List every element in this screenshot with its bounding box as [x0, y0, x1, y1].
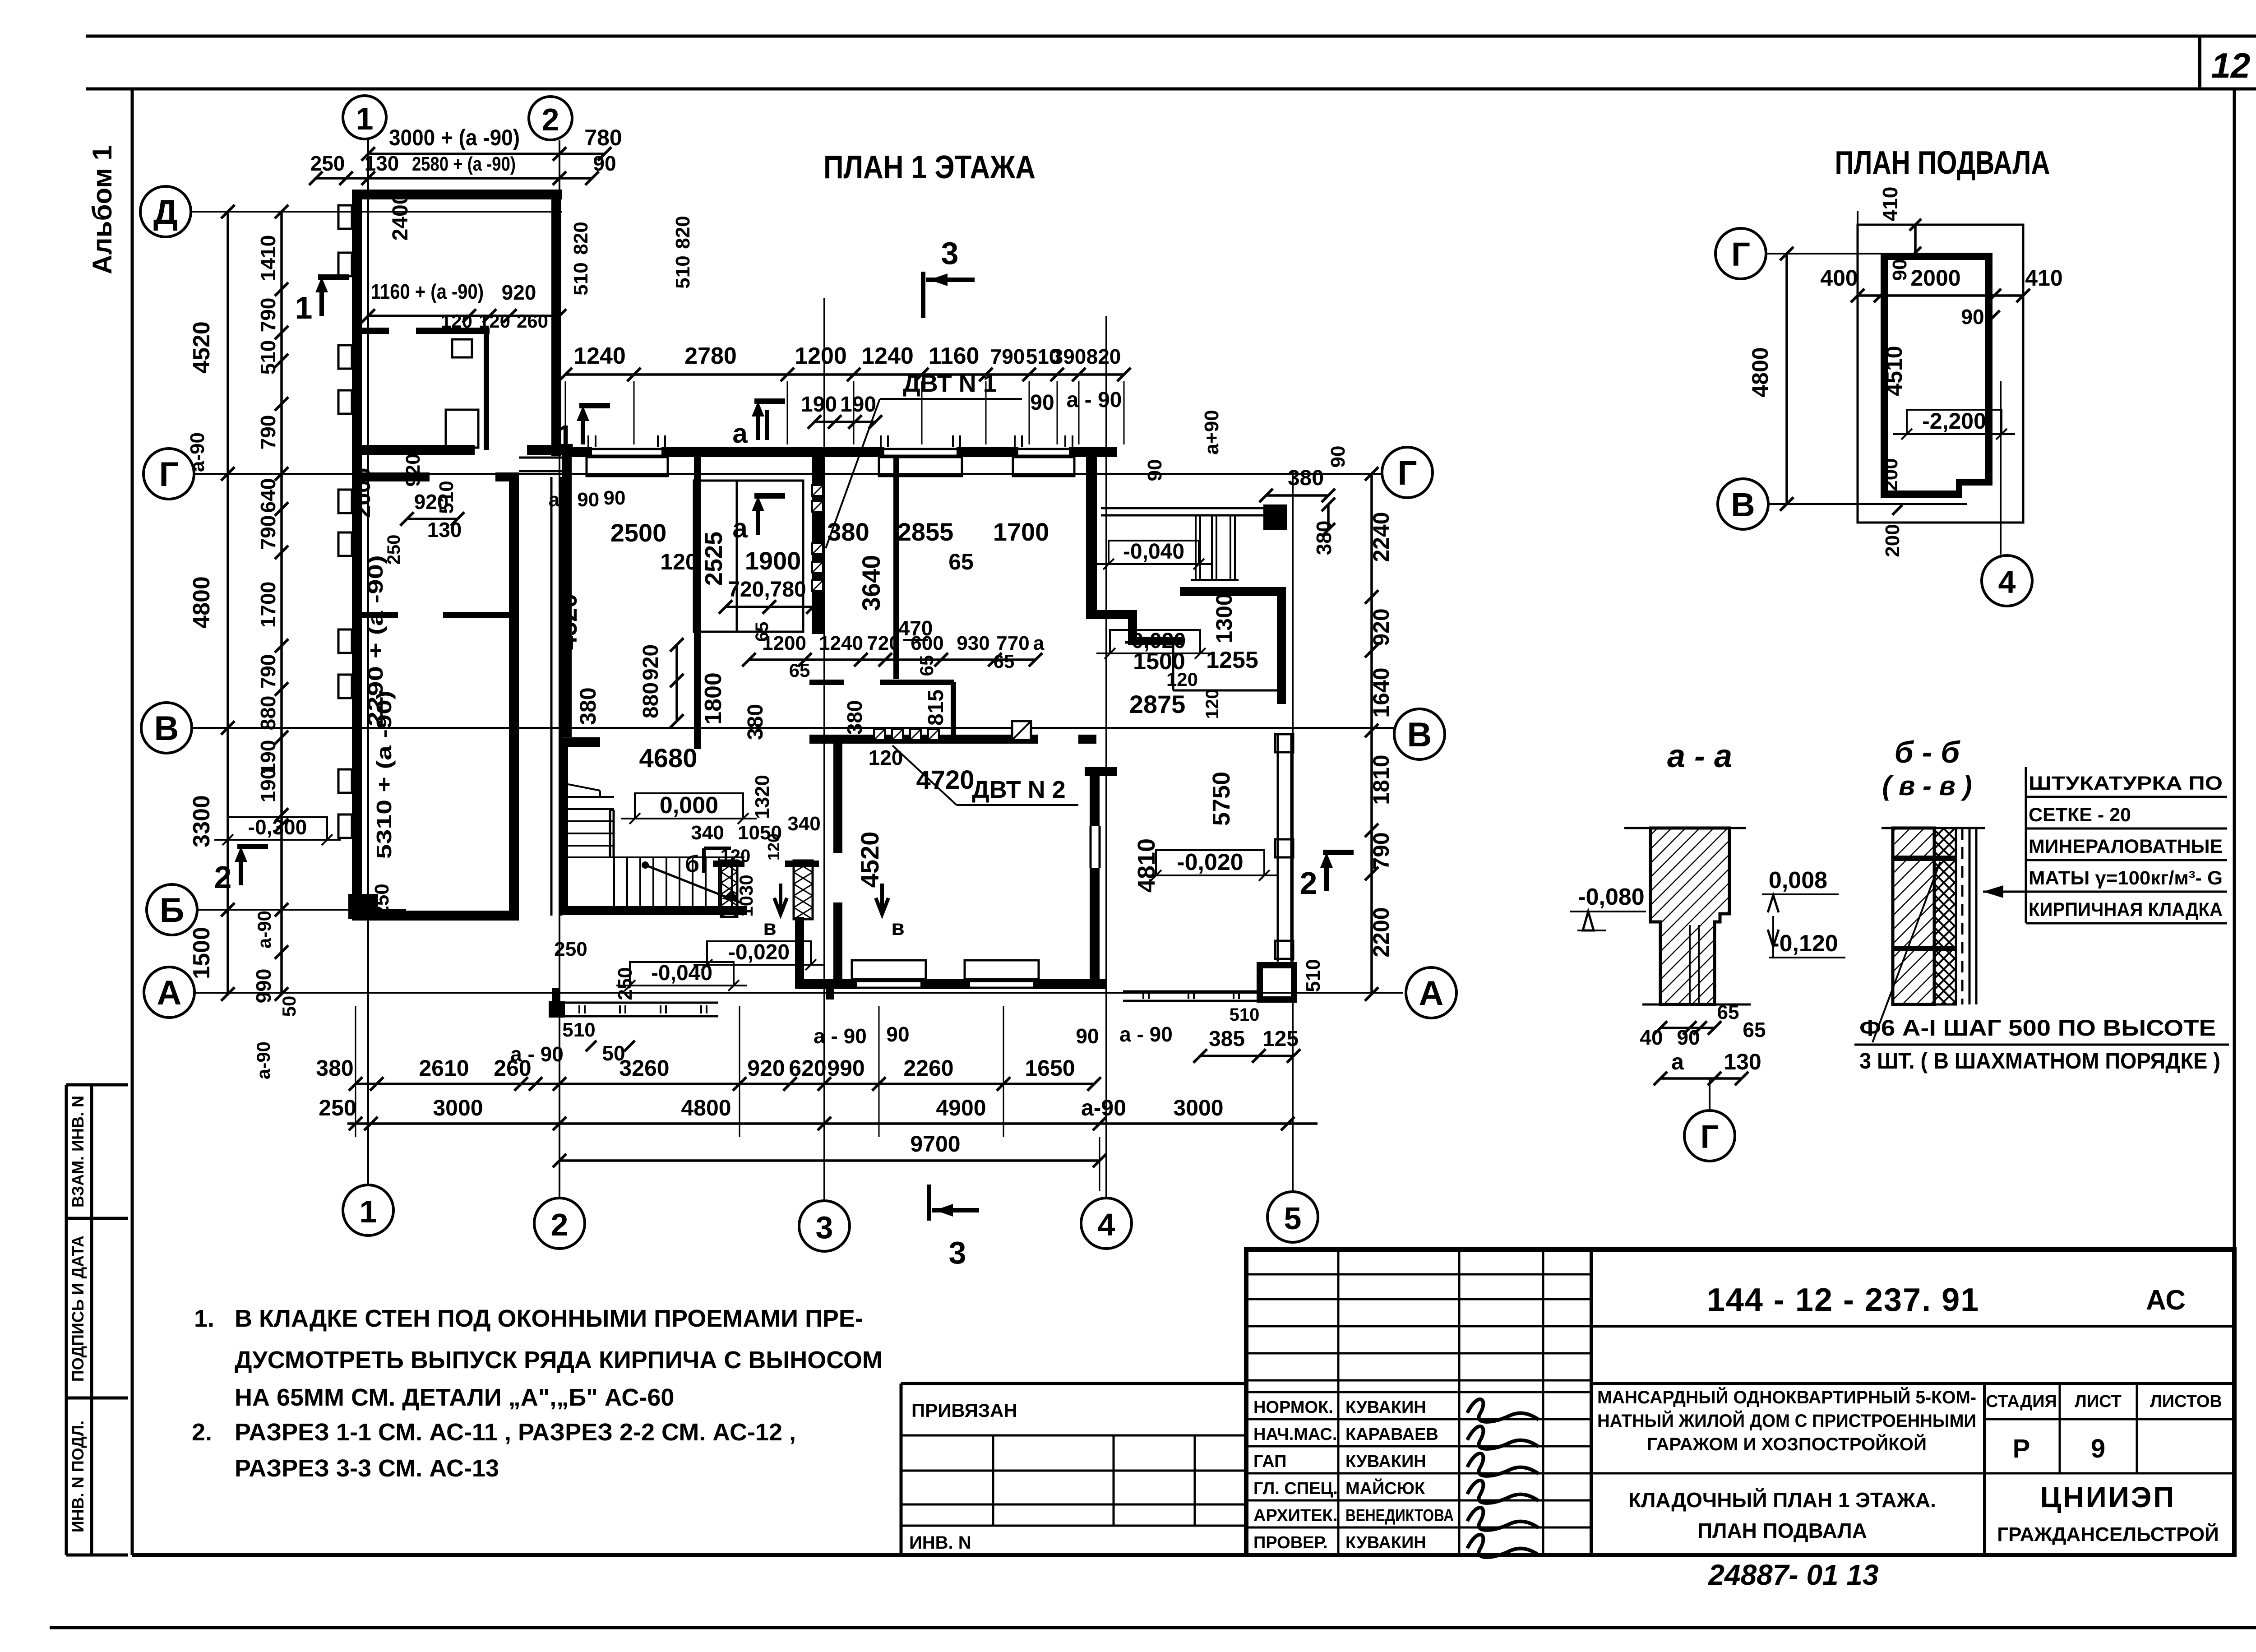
- svg-text:790: 790: [256, 298, 280, 333]
- svg-text:880: 880: [256, 696, 280, 731]
- section b-b rebar leader: [1872, 862, 1940, 1042]
- svg-text:2855: 2855: [897, 518, 954, 546]
- svg-text:1200: 1200: [795, 343, 847, 369]
- svg-text:В: В: [1731, 486, 1755, 523]
- svg-text:130: 130: [427, 518, 462, 541]
- title block personnel row lines: [1246, 1391, 1591, 1393]
- svg-text:ИНВ. N ПОДЛ.: ИНВ. N ПОДЛ.: [69, 1421, 87, 1532]
- svg-text:ДУСМОТРЕТЬ ВЫПУСК РЯДА КИРП: ДУСМОТРЕТЬ ВЫПУСК РЯДА КИРПИЧА С ВЫНОСОМ: [235, 1347, 883, 1374]
- svg-text:1240: 1240: [861, 343, 914, 369]
- svg-text:ПРИВЯЗАН: ПРИВЯЗАН: [911, 1400, 1017, 1421]
- svg-text:790: 790: [256, 515, 280, 550]
- svg-text:190: 190: [801, 393, 837, 416]
- section b-b brick layer hatched: [1893, 828, 1934, 1004]
- sheet outer bottom edge line: [50, 1626, 2256, 1629]
- axis circle B left: [147, 884, 197, 935]
- axis line D: [191, 211, 562, 213]
- svg-text:200: 200: [1880, 458, 1902, 491]
- svg-text:340: 340: [787, 813, 820, 835]
- section b-b insulation layer crosshatched: [1934, 828, 1956, 1004]
- axis circle 2 top: [529, 97, 572, 140]
- svg-text:90: 90: [1327, 446, 1349, 468]
- svg-text:120: 120: [660, 549, 698, 574]
- basement leader to axis 4: [2000, 381, 2002, 555]
- closet block outline: [694, 481, 803, 632]
- svg-text:3: 3: [816, 1210, 833, 1245]
- left wing window jamb marks on left wall: [338, 205, 352, 229]
- svg-text:ВЗАМ. ИНВ. N: ВЗАМ. ИНВ. N: [69, 1096, 87, 1208]
- svg-text:510: 510: [570, 262, 592, 295]
- svg-text:МИНЕРАЛОВАТНЫЕ: МИНЕРАЛОВАТНЫЕ: [2029, 836, 2223, 857]
- svg-text:65: 65: [948, 549, 974, 574]
- entrance niche walls: [1086, 610, 1137, 619]
- svg-text:В: В: [154, 709, 179, 748]
- svg-text:510: 510: [1230, 1005, 1260, 1025]
- section mark 2 left: [239, 854, 243, 885]
- svg-text:a: a: [732, 513, 748, 543]
- garage interior partition vertical: [484, 331, 489, 450]
- svg-text:90: 90: [593, 152, 616, 175]
- svg-text:СТАДИЯ: СТАДИЯ: [1986, 1392, 2057, 1411]
- svg-text:a+90: a+90: [1201, 410, 1223, 454]
- svg-text:120: 120: [764, 833, 783, 861]
- dimension chain wing 1160: [368, 315, 559, 317]
- vent square isolated: [1012, 721, 1031, 740]
- entrance small room lines: [1172, 645, 1174, 690]
- stair upper flight treads: [568, 796, 614, 798]
- level box 0.000: [635, 793, 743, 819]
- stair railing: [609, 810, 611, 857]
- living room west wall: [833, 744, 842, 853]
- svg-text:120: 120: [479, 310, 510, 332]
- axis line G: [194, 473, 1382, 475]
- svg-text:3000 + (a -90): 3000 + (a -90): [389, 125, 520, 150]
- svg-text:400: 400: [1820, 265, 1858, 291]
- svg-text:б: б: [685, 851, 699, 877]
- svg-text:65: 65: [752, 622, 772, 642]
- left wing garage bottom wall: [352, 445, 475, 455]
- svg-text:5: 5: [1284, 1201, 1302, 1236]
- svg-text:4800: 4800: [1747, 347, 1773, 397]
- svg-text:1700: 1700: [993, 518, 1049, 546]
- svg-text:Д: Д: [153, 193, 178, 231]
- svg-text:2875: 2875: [1129, 690, 1186, 718]
- section a-a hatched pier: [1650, 828, 1729, 1004]
- axis circle A left: [144, 967, 194, 1018]
- window jamb tabs above top wall: [587, 435, 589, 447]
- basement left dim 4800: [1785, 254, 1788, 504]
- left main dimension chain: [227, 212, 229, 994]
- axis 2 vertical line: [559, 140, 560, 1198]
- title block outer border: [1246, 1249, 2234, 1555]
- svg-text:720: 720: [867, 632, 900, 654]
- svg-text:ПЛАН 1 ЭТАЖА: ПЛАН 1 ЭТАЖА: [823, 149, 1036, 185]
- section b-b plaster lines: [1969, 828, 1971, 1004]
- svg-text:1640: 1640: [1368, 667, 1394, 717]
- svg-text:Г: Г: [1397, 454, 1417, 492]
- svg-text:90: 90: [1961, 305, 1984, 329]
- bottom wall window 1: [857, 980, 920, 982]
- section b-b mesh dashed line: [1961, 828, 1964, 1004]
- stair landing line: [568, 856, 744, 858]
- sheet outer top edge line: [86, 35, 2256, 38]
- vent squares column: [812, 485, 823, 496]
- vestibule stub: [826, 988, 834, 1000]
- garage fixture small: [452, 339, 472, 357]
- svg-text:120: 120: [1202, 689, 1222, 719]
- bath inner partition: [951, 682, 956, 739]
- svg-text:3260: 3260: [619, 1055, 669, 1081]
- svg-text:ПРОВЕР.: ПРОВЕР.: [1253, 1533, 1328, 1552]
- level box -0.020 east: [1110, 630, 1200, 653]
- section a-a axis leader: [1709, 1078, 1710, 1110]
- svg-text:880: 880: [639, 682, 663, 718]
- left wing lower block partition: [362, 612, 398, 618]
- svg-text:-2,200: -2,200: [1922, 408, 1986, 434]
- svg-text:380: 380: [827, 518, 869, 546]
- svg-text:2000: 2000: [1910, 265, 1960, 291]
- svg-text:790: 790: [256, 654, 280, 689]
- svg-text:1240: 1240: [573, 343, 626, 369]
- svg-text:-0,080: -0,080: [1578, 884, 1644, 910]
- main house left wall: [562, 457, 572, 737]
- bottom axis chain: [347, 1122, 1318, 1125]
- svg-text:4900: 4900: [936, 1095, 986, 1120]
- svg-text:790: 790: [256, 415, 280, 450]
- top wall window 1: [592, 448, 661, 450]
- svg-text:МАНСАРДНЫЙ ОДНОКВАРТИРНЫЙ 5-: МАНСАРДНЫЙ ОДНОКВАРТИРНЫЙ 5-КОМ-: [1597, 1387, 1976, 1407]
- svg-text:1030: 1030: [735, 875, 757, 916]
- left wing lower block top wall: [352, 472, 430, 481]
- svg-text:3300: 3300: [189, 795, 215, 847]
- svg-text:a-90: a-90: [1081, 1095, 1126, 1120]
- svg-text:СЕТКЕ - 20: СЕТКЕ - 20: [2029, 804, 2131, 826]
- section mark 2 right: [1324, 860, 1329, 891]
- svg-text:АС: АС: [2146, 1285, 2186, 1316]
- svg-text:ПЛАН ПОДВАЛА: ПЛАН ПОДВАЛА: [1835, 145, 2050, 181]
- signatures: [1467, 1399, 1539, 1422]
- level box -0.020 entry: [707, 941, 811, 965]
- svg-text:4800: 4800: [189, 576, 215, 629]
- svg-text:90: 90: [1677, 1026, 1700, 1049]
- svg-text:МАЙСЮК: МАЙСЮК: [1345, 1478, 1425, 1498]
- svg-text:КУВАКИН: КУВАКИН: [1345, 1452, 1426, 1471]
- svg-text:1700: 1700: [256, 582, 280, 628]
- section b-b tie bars: [1893, 856, 1956, 861]
- svg-text:2290 + (a -90): 2290 + (a -90): [364, 555, 387, 727]
- section mark 3 bottom: [927, 1185, 931, 1221]
- svg-text:65: 65: [1743, 1018, 1766, 1041]
- bottom overall chain 9700: [559, 1159, 1100, 1162]
- entrance east wall: [1277, 592, 1286, 704]
- svg-text:1: 1: [360, 1194, 377, 1229]
- left wing top wall: [352, 190, 562, 199]
- svg-text:790: 790: [1368, 832, 1394, 870]
- svg-text:( в - в ): ( в - в ): [1882, 771, 1972, 801]
- wing corridor east lines: [550, 477, 553, 916]
- axis circle G right: [1382, 447, 1433, 498]
- svg-text:2: 2: [1300, 865, 1318, 901]
- svg-text:380: 380: [744, 704, 767, 740]
- partition living-closet: [694, 457, 701, 749]
- vestibule bottom wall: [795, 980, 837, 989]
- svg-text:1900: 1900: [745, 546, 801, 575]
- svg-text:ПОДПИСЬ И ДАТА: ПОДПИСЬ И ДАТА: [69, 1236, 87, 1382]
- right dimension chain: [1370, 474, 1373, 994]
- svg-text:24887- 01 13: 24887- 01 13: [1708, 1559, 1878, 1591]
- vent squares row: [874, 729, 885, 740]
- basement level mark -2.200: [1907, 410, 2002, 434]
- axis circle 4 bottom: [1081, 1198, 1132, 1249]
- svg-text:ДВТ N 1: ДВТ N 1: [903, 370, 996, 397]
- svg-text:ГАРАЖОМ И ХОЗПОСТРОЙКОЙ: ГАРАЖОМ И ХОЗПОСТРОЙКОЙ: [1647, 1434, 1927, 1454]
- top wall window 3: [1018, 448, 1069, 450]
- svg-text:130: 130: [365, 152, 399, 175]
- svg-text:90: 90: [1030, 391, 1054, 415]
- svg-text:410: 410: [1878, 187, 1902, 222]
- svg-text:А: А: [1419, 974, 1444, 1013]
- stair hall left wall: [559, 747, 568, 911]
- basement axis V line: [1768, 503, 1967, 505]
- svg-text:НОРМОК.: НОРМОК.: [1253, 1398, 1333, 1417]
- svg-text:120: 120: [1166, 669, 1198, 690]
- svg-text:820: 820: [570, 222, 592, 255]
- svg-text:3000: 3000: [433, 1095, 483, 1120]
- svg-text:a - 90: a - 90: [549, 489, 600, 511]
- svg-text:90: 90: [1076, 1024, 1099, 1048]
- title block right section lines: [1591, 1382, 2234, 1385]
- svg-text:3: 3: [949, 1235, 966, 1270]
- svg-text:ГАП: ГАП: [1253, 1452, 1286, 1471]
- svg-text:Г: Г: [159, 455, 178, 494]
- svg-text:9700: 9700: [910, 1131, 960, 1157]
- left wing outer left wall: [352, 190, 362, 921]
- stair hall bottom wall: [559, 906, 747, 915]
- svg-text:260: 260: [517, 310, 548, 332]
- svg-text:1: 1: [556, 419, 574, 454]
- left wing lower block right wall: [509, 477, 519, 921]
- title block left small rows: [1246, 1273, 1591, 1276]
- svg-text:a: a: [1671, 1049, 1684, 1074]
- level box -0.040 east: [1109, 541, 1199, 564]
- section a-a ground line: [1624, 827, 1746, 829]
- svg-text:510: 510: [256, 340, 280, 375]
- svg-text:380: 380: [575, 687, 601, 725]
- svg-text:90: 90: [1889, 259, 1911, 281]
- vent channel wall: [812, 457, 823, 634]
- svg-text:510: 510: [1302, 959, 1324, 992]
- inner frame bottom border: [132, 1553, 2234, 1557]
- axis circle V left: [141, 703, 192, 753]
- svg-text:1160: 1160: [929, 343, 980, 369]
- basement dim line horizontal: [1858, 294, 2023, 297]
- svg-text:ДВТ N 2: ДВТ N 2: [972, 776, 1065, 803]
- basement foundation outline: [1858, 225, 2023, 523]
- axis circle 2 bottom: [534, 1198, 585, 1249]
- svg-text:5750: 5750: [1208, 772, 1235, 826]
- page number box: [2198, 36, 2201, 89]
- svg-text:ИНВ. N: ИНВ. N: [909, 1533, 971, 1553]
- basement axis circle 4: [1982, 555, 2032, 606]
- section b-b top line: [1882, 827, 1985, 829]
- vestibule west wall: [795, 917, 804, 988]
- svg-text:1410: 1410: [256, 235, 280, 281]
- sheet inner frame top line: [86, 88, 2256, 91]
- svg-text:620: 620: [789, 1055, 826, 1081]
- svg-text:МАТЫ γ=100кг/м³- G: МАТЫ γ=100кг/м³- G: [2029, 867, 2223, 889]
- svg-text:65: 65: [994, 651, 1015, 672]
- svg-text:А: А: [157, 974, 182, 1012]
- svg-text:2.: 2.: [192, 1419, 212, 1446]
- svg-text:2: 2: [214, 860, 232, 895]
- svg-text:ВЕНЕДИКТОВА: ВЕНЕДИКТОВА: [1345, 1506, 1454, 1525]
- basement axis G line: [1766, 253, 1940, 255]
- entrance column pier: [1263, 504, 1287, 530]
- svg-text:В: В: [1407, 716, 1432, 754]
- privyazan sub table: [901, 1470, 1246, 1472]
- section marks a: [756, 408, 760, 440]
- svg-text:90: 90: [1144, 459, 1166, 481]
- basement wall top: [1881, 253, 1992, 260]
- svg-text:в: в: [763, 916, 777, 940]
- svg-text:190: 190: [840, 393, 876, 416]
- svg-text:1300: 1300: [1211, 593, 1237, 643]
- axis 1 vertical line: [367, 139, 369, 1185]
- sub chain 190 190: [814, 421, 875, 423]
- svg-text:В КЛАДКЕ СТЕН ПОД ОКОННЫМИ: В КЛАДКЕ СТЕН ПОД ОКОННЫМИ ПРОЕМАМИ ПРЕ-: [235, 1305, 863, 1332]
- svg-text:50: 50: [602, 1041, 625, 1065]
- svg-text:120: 120: [721, 846, 751, 866]
- extension lines from top wall: [565, 381, 566, 444]
- axis 3 vertical line: [823, 298, 825, 1201]
- bottom wall window 2: [970, 980, 1033, 982]
- mid dimension chain under closets: [749, 658, 1036, 661]
- basement wall left: [1881, 253, 1888, 498]
- wing mid dim 920 130: [407, 518, 458, 520]
- dimension chain wing top detail: [316, 177, 592, 180]
- svg-text:ЛИСТ: ЛИСТ: [2075, 1392, 2122, 1411]
- svg-text:125: 125: [1262, 1027, 1299, 1051]
- svg-text:1810: 1810: [1368, 754, 1394, 805]
- svg-text:190: 190: [256, 768, 280, 803]
- svg-text:2525: 2525: [700, 532, 727, 586]
- svg-text:0,008: 0,008: [1769, 867, 1827, 893]
- svg-text:Б: Б: [160, 891, 185, 930]
- svg-text:1240: 1240: [819, 632, 863, 654]
- svg-text:410: 410: [2025, 265, 2062, 291]
- svg-text:250: 250: [554, 938, 587, 960]
- svg-text:380: 380: [1288, 466, 1324, 490]
- svg-text:380: 380: [316, 1055, 353, 1081]
- entrance steps east: [1101, 507, 1287, 509]
- svg-text:Г: Г: [1731, 236, 1750, 273]
- svg-text:1320: 1320: [751, 775, 773, 819]
- svg-text:144 - 12 - 237. 91: 144 - 12 - 237. 91: [1707, 1282, 1979, 1318]
- svg-text:820: 820: [1086, 345, 1121, 368]
- svg-text:ПЛАН ПОДВАЛА: ПЛАН ПОДВАЛА: [1697, 1519, 1867, 1542]
- axis circle 1 bottom: [343, 1185, 393, 1236]
- closet divider: [736, 481, 738, 632]
- svg-text:ГЛ. СПЕЦ.: ГЛ. СПЕЦ.: [1253, 1479, 1338, 1498]
- svg-text:б - б: б - б: [1895, 735, 1961, 769]
- porch slab left: [559, 1002, 718, 1004]
- title block vertical lines left part: [1337, 1249, 1340, 1555]
- svg-text:2580 + (a -90): 2580 + (a -90): [412, 153, 516, 175]
- svg-text:1255: 1255: [1206, 647, 1258, 673]
- svg-text:ЛИСТОВ: ЛИСТОВ: [2150, 1392, 2222, 1411]
- axis line V: [192, 727, 1394, 729]
- left wing bottom corner pier: [348, 894, 378, 919]
- section a-a dim a 130: [1660, 1077, 1742, 1080]
- svg-text:НАЧ.МАС.: НАЧ.МАС.: [1253, 1425, 1337, 1444]
- section mark 1 inner: [581, 413, 585, 444]
- svg-text:2780: 2780: [684, 343, 737, 369]
- svg-text:920: 920: [747, 1055, 785, 1081]
- svg-text:Альбом 1: Альбом 1: [87, 145, 117, 274]
- svg-text:120: 120: [869, 746, 903, 769]
- svg-text:50: 50: [278, 996, 300, 1017]
- svg-text:990: 990: [827, 1055, 864, 1081]
- svg-text:470: 470: [898, 616, 933, 640]
- kitchen partition: [893, 457, 899, 679]
- svg-text:930: 930: [957, 632, 989, 654]
- dimension chain axis1-2 top: [368, 153, 605, 155]
- section a-a core lines: [1689, 925, 1691, 1004]
- axis line B: [197, 909, 406, 911]
- svg-text:4520: 4520: [189, 321, 215, 374]
- bedroom east wall: [1090, 767, 1100, 826]
- svg-text:65: 65: [916, 655, 937, 676]
- svg-text:2500: 2500: [610, 518, 667, 547]
- svg-text:Г: Г: [1701, 1119, 1719, 1155]
- svg-text:ШТУКАТУРКА ПО: ШТУКАТУРКА ПО: [2029, 773, 2223, 794]
- bottom detail chain: [356, 1083, 1094, 1085]
- svg-text:4520: 4520: [855, 832, 884, 888]
- basement wall right: [1985, 253, 1992, 482]
- svg-text:4680: 4680: [639, 744, 697, 773]
- main house east wall upper: [1086, 457, 1097, 619]
- stair direction arrow: [645, 865, 740, 902]
- level box -0.020 veranda: [1156, 850, 1264, 875]
- stair lower flight treads: [613, 857, 615, 906]
- veranda posts: [1275, 734, 1293, 752]
- svg-text:250: 250: [384, 535, 404, 565]
- svg-text:380: 380: [843, 700, 866, 735]
- svg-text:510: 510: [562, 1019, 595, 1041]
- svg-text:920: 920: [502, 281, 536, 304]
- svg-text:4510: 4510: [1882, 346, 1907, 396]
- basement wall bottom stepped: [1881, 491, 1959, 498]
- garage interior partition horizontal: [362, 328, 389, 334]
- svg-text:2610: 2610: [419, 1055, 469, 1081]
- v arrow right: [876, 884, 888, 914]
- veranda corner pier: [1260, 965, 1294, 1000]
- svg-text:a - a: a - a: [1667, 738, 1732, 774]
- svg-text:Ф6 А-I ШАГ 500 ПО ВЫСОТЕ: Ф6 А-I ШАГ 500 ПО ВЫСОТЕ: [1859, 1015, 2216, 1041]
- svg-text:130: 130: [1724, 1049, 1761, 1074]
- inner frame right border: [2233, 89, 2236, 1555]
- svg-text:1650: 1650: [1025, 1055, 1075, 1081]
- svg-text:920: 920: [1368, 608, 1394, 646]
- v arrow left: [774, 884, 787, 914]
- axis circle 1 top: [343, 96, 386, 139]
- svg-text:1500: 1500: [189, 927, 215, 979]
- svg-text:1: 1: [295, 290, 313, 325]
- svg-text:4520: 4520: [554, 594, 582, 650]
- main top dimension chain: [565, 373, 1124, 376]
- svg-text:250: 250: [319, 1095, 356, 1120]
- svg-text:40: 40: [1640, 1026, 1663, 1049]
